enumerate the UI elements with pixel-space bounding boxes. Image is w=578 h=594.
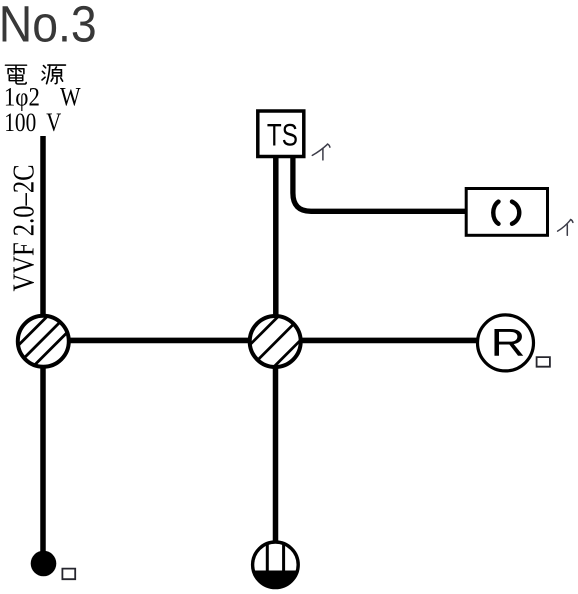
cable label VVF 2.0-2C	[6, 165, 40, 292]
wire TS to junction J2	[273, 158, 279, 341]
svg-text:V: V	[46, 108, 61, 137]
svg-text:W: W	[60, 83, 81, 112]
label ロ for pendant dot	[62, 569, 75, 580]
value label 1φ2W	[4, 83, 81, 112]
ceiling rose	[253, 542, 299, 588]
wire J2 to ceiling rose	[273, 341, 279, 545]
svg-text:R: R	[491, 321, 526, 364]
junction box J2	[208, 297, 344, 387]
svg-text:TS: TS	[267, 116, 298, 152]
label イ for outlet box	[558, 220, 573, 236]
wire J2 to lamp R	[275, 338, 506, 344]
svg-text:No.3: No.3	[0, 0, 97, 53]
power source label 電源	[6, 65, 66, 84]
value label 100V	[4, 108, 61, 137]
outlet box with lamp ()	[466, 189, 547, 236]
lamp receptacle R	[478, 315, 534, 371]
源	[42, 65, 65, 84]
title No.3	[0, 0, 97, 53]
wire TS to outlet box	[293, 158, 466, 211]
wire J1 to pendant dot	[40, 341, 46, 556]
pendant dot	[31, 551, 57, 577]
svg-text:100: 100	[4, 108, 36, 137]
wire source to junction J1	[40, 136, 46, 341]
電	[6, 65, 27, 84]
label ロ for lamp R	[537, 357, 550, 367]
wire J1 to J2	[43, 338, 276, 344]
timer switch TS	[258, 111, 304, 157]
junction box J1	[0, 296, 103, 386]
label イ for TS	[312, 144, 330, 160]
svg-text:VVF 2.0–2C: VVF 2.0–2C	[6, 165, 40, 292]
